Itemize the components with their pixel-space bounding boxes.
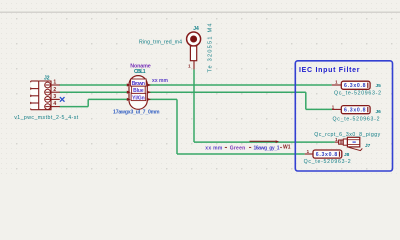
svg-text:J5: J5 <box>376 83 382 89</box>
cable entry arrows left <box>127 83 151 101</box>
svg-text:6.3x0.8: 6.3x0.8 <box>316 152 338 158</box>
wire W1 text label <box>205 145 279 151</box>
svg-text:xx mm: xx mm <box>205 145 223 151</box>
svg-text:Yl/Gn: Yl/Gn <box>132 95 145 101</box>
svg-text:6.3x0.8: 6.3x0.8 <box>344 83 366 89</box>
wire YlGn net jog up <box>87 99 89 106</box>
svg-text:J8: J8 <box>344 152 350 158</box>
ring terminal barrel <box>190 46 196 61</box>
wire Blue net horizontal, J2 pin 2 <box>60 91 306 93</box>
ring terminal inner circle <box>190 36 197 43</box>
svg-text:Green: Green <box>230 145 246 151</box>
faston J8 <box>304 149 351 165</box>
svg-text:IEC Input Filter: IEC Input Filter <box>299 67 360 74</box>
svg-text:J7: J7 <box>365 143 371 149</box>
piggyback receptacle J7 <box>314 132 380 151</box>
wire label Blue <box>132 86 146 94</box>
faston J6 <box>332 104 381 122</box>
W1 arrow <box>276 140 280 143</box>
wire Blue net vertical drop <box>305 92 307 109</box>
wire Blue net to J6 pin 1 <box>306 108 332 110</box>
sheet border line <box>0 11 400 13</box>
wire YlGn net vertical drop <box>176 99 178 154</box>
svg-text:xx mm: xx mm <box>152 78 169 84</box>
J2 pin stubs <box>51 85 60 107</box>
svg-text:Qc_rcpt_6_3x0_8_piggy: Qc_rcpt_6_3x0_8_piggy <box>314 132 380 138</box>
IEC Input Filter box <box>295 61 392 171</box>
J2 female pin contacts 1-4 <box>45 82 51 109</box>
svg-text:Qc_te-520963-2: Qc_te-520963-2 <box>304 159 351 165</box>
svg-text:Qc_te-520963-2: Qc_te-520963-2 <box>333 117 380 123</box>
wire W1 green net vertical from J4 ring terminal <box>193 69 195 142</box>
svg-text:6.3x0.8: 6.3x0.8 <box>344 107 366 113</box>
svg-text:J2: J2 <box>44 76 50 82</box>
wire YlGn net through cable <box>88 98 177 100</box>
no-connect X on J2.3 <box>60 97 65 102</box>
svg-text:CBL1: CBL1 <box>134 69 146 75</box>
svg-text:v1_pwc_mstbt_2-5_4-st: v1_pwc_mstbt_2-5_4-st <box>14 115 79 121</box>
wire W1 designation overlay <box>250 140 276 142</box>
wire Brown net, J2 pin 1 to J5 pin 1 <box>60 84 332 86</box>
svg-text:J6: J6 <box>376 109 382 115</box>
svg-text:4: 4 <box>53 101 56 107</box>
wire W1 green net to J7 pin 1 <box>194 141 335 143</box>
ring terminal J4 <box>187 32 201 46</box>
J2 pin numbers <box>53 80 56 108</box>
svg-text:W1: W1 <box>283 145 291 151</box>
wire label Yl/Gn <box>131 93 146 101</box>
svg-text:Ring_trm_red_m4: Ring_trm_red_m4 <box>139 39 182 45</box>
svg-text:1: 1 <box>53 80 56 86</box>
svg-text:16awg_gy_1: 16awg_gy_1 <box>254 145 280 151</box>
faston J5 <box>332 80 381 97</box>
svg-text:2: 2 <box>53 87 56 93</box>
svg-text:J4: J4 <box>193 26 199 32</box>
svg-text:Qc_te-520963-2: Qc_te-520963-2 <box>334 90 381 96</box>
wire YlGn net to J8 pin 1 <box>177 153 305 155</box>
connector J2 <box>31 81 51 110</box>
ring terminal pin <box>193 61 195 70</box>
wire label Brown <box>131 79 147 87</box>
svg-text:3: 3 <box>53 94 56 100</box>
cable CBL1 oval <box>129 76 147 110</box>
wire YlGn net from J2 pin 4 <box>60 106 89 108</box>
svg-text:17awgx3_ul_7_0mm: 17awgx3_ul_7_0mm <box>113 109 160 115</box>
